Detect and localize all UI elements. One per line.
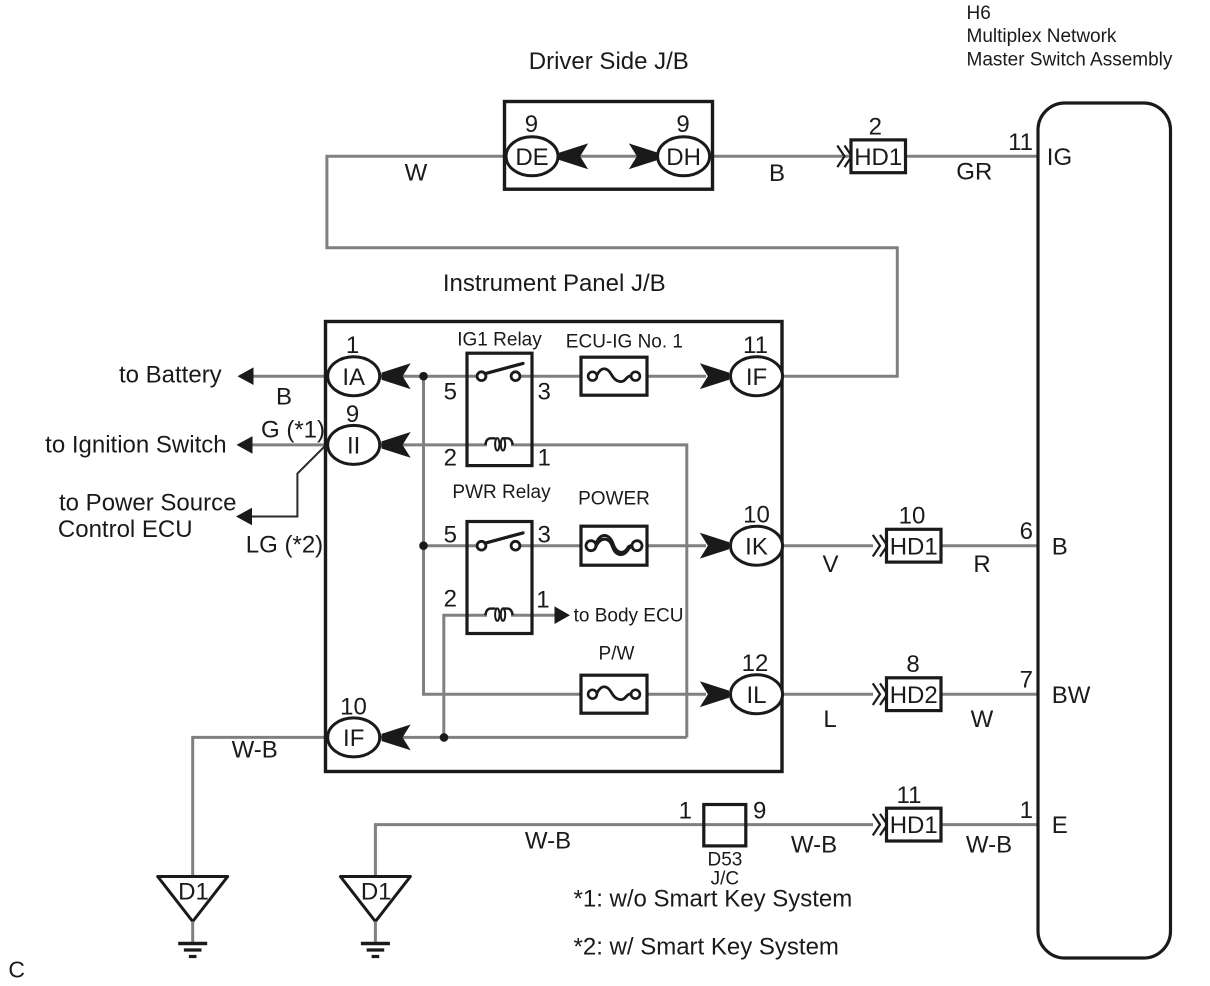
svg-text:C: C [8, 957, 25, 983]
wire to Ignition Switch [240, 443, 330, 446]
svg-text:G (*1): G (*1) [261, 417, 325, 444]
svg-text:W-B: W-B [966, 832, 1012, 859]
wire V: IK to HD1(10) [782, 544, 873, 547]
fuse ECU-IG No. 1 box [581, 357, 647, 395]
svg-text:W: W [971, 706, 994, 733]
svg-text:Master Switch Assembly: Master Switch Assembly [967, 49, 1173, 70]
svg-text:LG (*2): LG (*2) [246, 532, 323, 559]
svg-text:HD1: HD1 [890, 533, 938, 560]
svg-text:GR: GR [956, 159, 992, 186]
junction connector D53 box [704, 805, 746, 846]
wire PWR contact row from node [424, 544, 484, 547]
connector HD2 (8) [887, 678, 942, 711]
arrow chevron before IF(11) [701, 364, 729, 388]
svg-text:DH: DH [666, 144, 701, 171]
svg-text:W: W [405, 160, 428, 187]
svg-text:9: 9 [676, 111, 689, 138]
wire P/W fuse to IL(12) [634, 693, 706, 696]
svg-text:Instrument Panel J/B: Instrument Panel J/B [443, 270, 666, 297]
svg-text:12: 12 [742, 650, 769, 677]
node junction dot C [440, 733, 449, 742]
svg-text:5: 5 [444, 522, 457, 549]
arrow chevron after IF(10) [382, 725, 410, 749]
svg-text:9: 9 [525, 111, 538, 138]
wire IA to IG1 relay contact [378, 375, 483, 378]
svg-text:HD1: HD1 [854, 144, 902, 171]
wire IG1 relay to ECU-IG fuse [514, 375, 594, 378]
fusible link POWER symbol [586, 536, 642, 555]
multiplex master switch assembly H6 connector body [1038, 103, 1171, 958]
svg-text:11: 11 [897, 782, 922, 809]
svg-text:to Ignition Switch: to Ignition Switch [45, 432, 226, 459]
svg-text:D53: D53 [707, 850, 742, 871]
svg-text:IG1 Relay: IG1 Relay [457, 330, 542, 351]
node junction dot B [419, 541, 428, 550]
svg-text:1: 1 [346, 332, 359, 359]
svg-text:2: 2 [444, 586, 457, 613]
svg-text:II: II [347, 433, 360, 460]
svg-text:PWR Relay: PWR Relay [452, 482, 551, 503]
wire PWR coil right to Body ECU arrow [511, 614, 556, 617]
double chevron before HD1(10) [873, 535, 887, 557]
svg-text:*1: w/o Smart Key System: *1: w/o Smart Key System [574, 886, 853, 913]
svg-text:H6: H6 [967, 3, 991, 24]
arrow to Ignition Switch [237, 436, 253, 454]
svg-text:1: 1 [538, 445, 551, 472]
svg-text:to Power Source: to Power Source [59, 490, 236, 517]
svg-text:3: 3 [538, 379, 551, 406]
svg-text:B: B [276, 384, 292, 411]
wire II to IG1 coil [378, 443, 487, 446]
relay PWR coil [485, 608, 512, 620]
svg-text:IG: IG [1047, 144, 1072, 171]
wire B: DH to HD1(2) [709, 155, 852, 158]
svg-text:11: 11 [1008, 129, 1033, 156]
relay IG1 contact [477, 363, 523, 380]
arrow chevron before IK [701, 534, 729, 558]
wire POWER fuse to IK(10) [634, 544, 706, 547]
svg-text:3: 3 [538, 522, 551, 549]
connector HD1 (11) [887, 808, 942, 841]
arrow chevron before DH [630, 144, 658, 168]
double chevron before HD1(11) [873, 814, 887, 836]
svg-text:7: 7 [1020, 667, 1033, 694]
wire PWR relay to POWER fuse [514, 544, 594, 547]
wire W-B bottom: ground D1 to D53 to HD1(11) [375, 825, 873, 877]
Driver Side J/B box [505, 102, 713, 190]
svg-text:V: V [822, 551, 838, 578]
wire LG (*2) polyline to Power Source Control ECU [252, 446, 326, 517]
svg-text:2: 2 [444, 445, 457, 472]
connector cavity IF pin 11 [731, 357, 783, 396]
node junction dot A [419, 372, 428, 381]
relay PWR contact [477, 533, 523, 550]
svg-text:Multiplex Network: Multiplex Network [967, 26, 1117, 47]
svg-text:B: B [1052, 533, 1068, 560]
svg-text:HD2: HD2 [890, 682, 938, 709]
svg-text:IF: IF [343, 725, 364, 752]
svg-text:D1: D1 [361, 879, 392, 906]
relay PWR box [467, 522, 532, 634]
connector cavity II [328, 425, 380, 464]
wire W-B: HD1(11) to pin 1 [940, 823, 1038, 826]
arrow to Power Source Control ECU [236, 508, 252, 526]
wire PWR coil inside left [467, 614, 487, 617]
svg-text:BW: BW [1052, 682, 1091, 709]
svg-text:ECU-IG No. 1: ECU-IG No. 1 [566, 332, 683, 353]
wire to Battery [240, 375, 330, 378]
svg-text:E: E [1052, 812, 1068, 839]
arrow chevron before IL [701, 682, 729, 706]
svg-text:L: L [823, 706, 836, 733]
connector cavity DH [658, 137, 710, 176]
svg-text:D1: D1 [178, 879, 209, 906]
svg-text:B: B [769, 160, 785, 187]
connector HD1 (10) [887, 529, 942, 562]
Instrument Panel J/B box [326, 322, 783, 772]
wire IG1 coil right, down to IF(10) row [511, 445, 687, 738]
connector HD1 (2) [851, 140, 906, 173]
svg-text:*2: w/ Smart Key System: *2: w/ Smart Key System [574, 934, 839, 961]
wire GR: HD1(2) to IG pin [904, 155, 1038, 158]
wire L: IL to HD2(8) [782, 693, 873, 696]
svg-text:W-B: W-B [232, 737, 278, 764]
svg-text:W-B: W-B [791, 832, 837, 859]
wire R: HD1(10) to pin 6 [940, 544, 1038, 547]
fuse ECU-IG No. 1 symbol [588, 369, 640, 382]
svg-text:IL: IL [746, 682, 766, 709]
svg-text:10: 10 [743, 502, 770, 529]
svg-text:10: 10 [899, 502, 926, 529]
wire W-B: IF(10) to ground D1 [193, 736, 378, 877]
svg-text:IF: IF [746, 364, 767, 391]
svg-text:Driver Side J/B: Driver Side J/B [529, 48, 689, 75]
svg-text:P/W: P/W [599, 644, 635, 665]
svg-text:W-B: W-B [525, 828, 571, 855]
arrow to Battery [238, 367, 254, 385]
double chevron before HD1(2) [837, 146, 851, 168]
wire W: HD2(8) to pin 7 [940, 693, 1038, 696]
relay IG1 box [467, 353, 532, 465]
connector cavity IA [328, 357, 380, 396]
svg-text:to Battery: to Battery [119, 362, 222, 389]
svg-text:6: 6 [1020, 518, 1033, 545]
svg-text:IK: IK [745, 533, 768, 560]
double chevron before HD2(8) [873, 683, 887, 705]
svg-text:DE: DE [515, 144, 548, 171]
wire ECU-IG fuse to IF(11) [634, 375, 706, 378]
relay IG1 coil [485, 438, 512, 450]
fuse P/W symbol [588, 687, 640, 700]
connector cavity IL [731, 675, 783, 714]
svg-text:9: 9 [346, 401, 359, 428]
wire DE-DH [558, 155, 658, 158]
svg-text:11: 11 [743, 332, 768, 359]
arrow chevron after DE [560, 144, 588, 168]
svg-text:to Body ECU: to Body ECU [574, 606, 684, 627]
svg-text:8: 8 [906, 651, 919, 678]
fuse POWER box [581, 526, 647, 565]
svg-text:9: 9 [753, 798, 766, 825]
ground D1 (left) [158, 877, 228, 957]
connector cavity IK [731, 526, 783, 565]
svg-text:1: 1 [536, 587, 549, 614]
svg-text:Control ECU: Control ECU [58, 516, 193, 543]
arrow chevron after IA [382, 364, 410, 388]
wire node branch vertical + P/W run [424, 376, 595, 694]
arrow chevron after II [382, 433, 410, 457]
wire IF(10) row to vertical 686.8 [378, 736, 687, 739]
fuse P/W box [581, 675, 647, 713]
connector cavity DE [506, 137, 558, 176]
connector cavity IF pin 10 [328, 718, 380, 757]
svg-text:HD1: HD1 [890, 812, 938, 839]
svg-text:5: 5 [444, 379, 457, 406]
wire W net: DE to IF(11) via left drop and top run [327, 156, 897, 376]
svg-text:1: 1 [679, 798, 692, 825]
arrow to Body ECU [555, 606, 571, 624]
svg-text:1: 1 [1020, 797, 1033, 824]
svg-text:POWER: POWER [578, 489, 650, 510]
svg-text:IA: IA [342, 364, 365, 391]
wire PWR coil left leg down to IF(10) row [444, 615, 467, 737]
svg-text:R: R [973, 551, 990, 578]
svg-text:10: 10 [340, 693, 367, 720]
ground D1 (right) [340, 877, 410, 957]
svg-text:2: 2 [869, 114, 882, 141]
